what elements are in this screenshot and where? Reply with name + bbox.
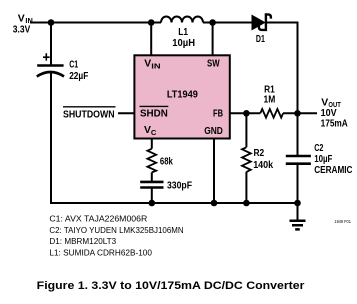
wire: SW pin stub	[212, 23, 214, 57]
svg-text:D1: MBRM120LT3: D1: MBRM120LT3	[49, 237, 116, 246]
wire: R2 branch from FB line to zigzag and to ground rail	[245, 113, 247, 203]
capacitor C1 (polarized)	[37, 64, 63, 67]
svg-text:C: C	[151, 128, 157, 137]
wire: diode cathode to top-right corner down to VOUT node	[266, 23, 298, 157]
wire: FB line from pin through R1 to VOUT label	[229, 112, 317, 114]
svg-text:10µF: 10µF	[314, 154, 332, 165]
resistor R1	[260, 109, 283, 118]
junction: GND pin ground node	[211, 200, 218, 207]
wire: right rail below C2 down to ground rail	[297, 164, 299, 203]
svg-text:L1: L1	[178, 27, 188, 38]
svg-text:D1: D1	[256, 34, 265, 45]
resistor R2	[242, 147, 251, 172]
svg-text:SW: SW	[207, 58, 220, 69]
junction: R2 ground node	[243, 200, 250, 207]
svg-text:C2: C2	[314, 143, 323, 154]
wire: top rail from VIN label to inductor	[30, 22, 161, 24]
junction: 330pF ground node	[149, 200, 156, 207]
svg-text:10µH: 10µH	[172, 38, 195, 49]
wire: VC pin stub to 68k	[151, 138, 153, 149]
svg-text:C1: C1	[69, 60, 78, 71]
wire: bottom ground rail	[50, 202, 298, 204]
resistor 68k	[147, 149, 156, 173]
svg-text:330pF: 330pF	[167, 181, 192, 192]
capacitor 330pF	[140, 181, 163, 184]
svg-text:V: V	[321, 98, 328, 109]
wire: SHUTDOWN input to SHDN pin	[118, 112, 135, 114]
ground	[297, 203, 299, 221]
svg-text:3.3V: 3.3V	[13, 24, 31, 35]
svg-text:CERAMIC: CERAMIC	[314, 165, 353, 176]
junction: VIN node on left rail	[48, 19, 55, 26]
svg-text:C1: AVX TAJA226M006R: C1: AVX TAJA226M006R	[49, 215, 147, 224]
svg-text:C2: TAIYO YUDEN LMK325BJ106MN: C2: TAIYO YUDEN LMK325BJ106MN	[49, 226, 183, 235]
inductor L1	[161, 17, 203, 23]
wire: 68k to 330pF and 330pF to ground rail	[151, 172, 153, 203]
wire: top rail inductor to diode anode	[203, 22, 252, 24]
wire: GND pin stub to ground rail	[213, 138, 215, 203]
svg-text:1949 F01: 1949 F01	[334, 219, 351, 224]
junction: C2 ground node	[294, 200, 301, 207]
svg-text:IN: IN	[151, 61, 160, 70]
svg-text:R2: R2	[254, 148, 265, 159]
svg-text:SHDN: SHDN	[140, 109, 168, 120]
junction: VIN pin node	[148, 19, 155, 26]
junction: SW pin node	[209, 19, 216, 26]
svg-text:Figure 1. 3.3V to 10V/175mA DC: Figure 1. 3.3V to 10V/175mA DC/DC Conver…	[37, 280, 305, 292]
svg-text:FB: FB	[213, 109, 223, 120]
wire: VIN pin stub	[150, 23, 152, 57]
IC U1 LT1949	[134, 55, 229, 138]
junction: VOUT node	[294, 110, 301, 117]
svg-text:68k: 68k	[160, 157, 173, 168]
svg-text:175mA: 175mA	[321, 118, 349, 129]
svg-text:L1: SUMIDA CDRH62B-100: L1: SUMIDA CDRH62B-100	[49, 248, 152, 257]
capacitor C2	[286, 155, 311, 158]
svg-text:V: V	[18, 13, 25, 24]
svg-text:V: V	[144, 59, 151, 70]
svg-text:1M: 1M	[264, 95, 276, 106]
wire: left rail top (VIN node down to C1 top plate)	[50, 23, 52, 66]
diode D1 (Schottky)	[252, 15, 265, 30]
wire: left rail below C1 down to ground rail	[50, 73, 52, 204]
svg-text:SHUTDOWN: SHUTDOWN	[63, 109, 115, 120]
svg-text:LT1949: LT1949	[167, 90, 198, 101]
svg-text:GND: GND	[204, 126, 223, 137]
svg-text:22µF: 22µF	[69, 71, 88, 82]
svg-text:140k: 140k	[253, 160, 273, 171]
junction: FB / R2 node	[243, 110, 250, 117]
